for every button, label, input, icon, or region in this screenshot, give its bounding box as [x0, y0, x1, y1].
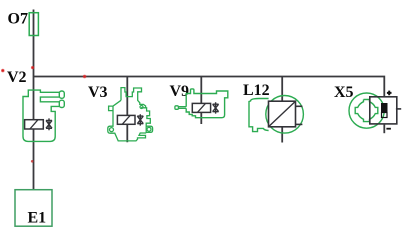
ground unit E1 box	[15, 190, 52, 227]
pump L12 square symbol	[269, 101, 296, 127]
valve symbol of V3	[137, 114, 143, 125]
V3 mounting ear circle right	[147, 127, 151, 131]
wire: L12 drop	[281, 77, 283, 102]
fuse O7	[29, 13, 38, 36]
valve V2 prong separation	[40, 97, 59, 102]
plus sign at X5	[387, 91, 392, 96]
svg-text:X5: X5	[334, 84, 354, 101]
valve V3 body outline	[108, 88, 153, 141]
V9 nozzle cap	[175, 106, 179, 110]
valve V2 prong pin cap lower	[59, 100, 64, 107]
coil of V2	[25, 120, 44, 129]
junction dot on bus	[83, 75, 87, 79]
X5 right terminal tick	[396, 108, 401, 110]
wire: supply from O7 down through V2 body to E1	[33, 10, 35, 190]
coil of V3	[117, 115, 135, 124]
minus sign at X5	[386, 128, 391, 130]
svg-text:E1: E1	[28, 210, 47, 227]
junction dot left of V2 label	[1, 69, 5, 73]
valve V9 body outline	[186, 89, 228, 118]
wire: L12 bottom stub	[281, 127, 283, 143]
wire: V3 drop	[126, 77, 128, 143]
L12 terminal tick upper	[296, 105, 303, 107]
valve V2 prong pin cap upper	[59, 91, 64, 98]
coil of V9	[192, 103, 210, 112]
X5 connector clover key	[355, 100, 378, 122]
V9 nozzle stem	[178, 107, 186, 109]
valve symbol of V2	[46, 118, 52, 130]
wire: V9 drop	[200, 77, 202, 125]
svg-text:V3: V3	[88, 84, 108, 101]
V3 side ring	[140, 106, 143, 109]
X5 bottom stub	[383, 124, 385, 133]
valve V2 body outline	[23, 90, 59, 141]
pump L12 round body	[266, 96, 304, 134]
V3 mounting ear circle left	[110, 128, 114, 132]
svg-text:O7: O7	[8, 11, 28, 28]
X5 housing rectangle	[370, 97, 397, 124]
junction dot on O7 wire	[31, 66, 34, 69]
pump L12 mounting bracket	[249, 99, 269, 132]
X5 connector round body	[349, 93, 384, 128]
L12 terminal tick lower	[296, 123, 303, 125]
junction dot on E1 wire	[31, 160, 34, 163]
valve symbol of V9	[213, 102, 219, 113]
wire: main bus V2 from junction to X5 with turn-down	[34, 77, 385, 97]
svg-text:L12: L12	[243, 82, 270, 99]
X5 terminal element	[382, 104, 388, 118]
svg-text:V2: V2	[7, 69, 27, 86]
